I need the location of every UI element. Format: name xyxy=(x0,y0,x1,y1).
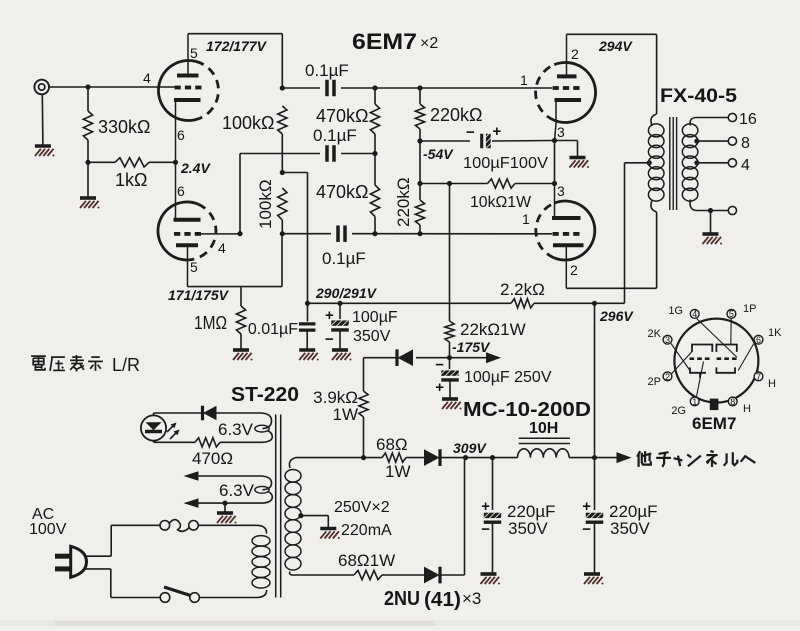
capacitor C2 0.1uF to inverter grid xyxy=(325,145,329,162)
svg-text:350V: 350V xyxy=(508,519,548,538)
node cathode/10k junction xyxy=(552,181,557,186)
node 8ohm tap xyxy=(694,139,699,144)
svg-text:1W: 1W xyxy=(333,405,359,424)
label voltage-note (Japanese) Denatsu hyouji L/R xyxy=(31,355,46,357)
svg-text:350V: 350V xyxy=(610,519,650,538)
svg-text:250V×2: 250V×2 xyxy=(334,499,390,516)
node 296V junction xyxy=(592,301,597,306)
svg-text:10H: 10H xyxy=(529,420,558,437)
capacitor C5 0.01uF decoupling xyxy=(307,303,309,321)
ground (jack shell) xyxy=(35,144,51,148)
wire 22k riser xyxy=(449,184,451,322)
wire secondary 0 tap xyxy=(697,210,728,212)
svg-text:−: − xyxy=(582,521,591,538)
wire V1b plate to OPT xyxy=(567,33,657,35)
wire to other channel arrow xyxy=(595,457,619,459)
svg-text:8: 8 xyxy=(741,135,750,152)
svg-text:+: + xyxy=(493,123,502,140)
resistor R2 1kOhm V1a cathode xyxy=(88,161,115,163)
svg-text:−: − xyxy=(481,521,490,538)
svg-text:294V: 294V xyxy=(598,38,633,54)
capacitor C1 0.1uF xyxy=(325,80,329,97)
svg-text:309V: 309V xyxy=(453,440,487,456)
svg-text:−: − xyxy=(466,124,475,141)
fuse F1 xyxy=(160,521,170,531)
svg-text:×2: ×2 xyxy=(420,35,438,52)
resistor R9 220kOhm V2b grid leak xyxy=(419,184,421,201)
ground (HV center tap) xyxy=(320,527,336,531)
wire V2a grid to divider xyxy=(239,154,241,234)
socket pin 5 xyxy=(727,310,736,319)
svg-text:2G: 2G xyxy=(671,405,686,417)
resistor R11 2.2kOhm dropper xyxy=(511,299,534,308)
transformer T1 primary winding xyxy=(199,525,267,533)
terminal 8 xyxy=(728,137,736,145)
svg-text:3: 3 xyxy=(557,124,565,140)
wire jack to V1a grid xyxy=(48,86,174,88)
svg-text:8: 8 xyxy=(730,397,735,407)
node B+ feed junction xyxy=(280,170,285,175)
wire secondary 16ohm tap xyxy=(697,117,728,119)
node rail/0.01uF xyxy=(305,301,310,306)
svg-text:H: H xyxy=(768,378,776,390)
node bias divider junction xyxy=(417,181,422,186)
pilot lamp LED xyxy=(141,415,166,440)
svg-text:16: 16 xyxy=(739,111,757,128)
node cathode-return junction xyxy=(85,160,90,165)
node row3/220k xyxy=(417,231,422,236)
ground (bias filter) xyxy=(442,397,458,401)
resistor R1 330kOhm xyxy=(87,87,89,111)
svg-text:2: 2 xyxy=(570,262,578,278)
node secondary ground tap xyxy=(708,208,713,213)
svg-text:470kΩ: 470kΩ xyxy=(316,106,369,126)
wire plug to switch xyxy=(85,568,111,570)
input jack J1 xyxy=(34,80,49,95)
node V1a plate junction xyxy=(280,85,285,90)
resistor R7 470kOhm divider lower xyxy=(374,154,376,186)
svg-text:6.3V: 6.3V xyxy=(219,481,255,500)
svg-text:7: 7 xyxy=(756,372,761,382)
svg-text:+: + xyxy=(481,498,490,515)
transformer T2 primary winding xyxy=(651,114,657,126)
svg-text:6: 6 xyxy=(756,335,761,345)
svg-text:ST-220: ST-220 xyxy=(231,384,299,406)
svg-text:MC-10-200D: MC-10-200D xyxy=(463,399,591,421)
svg-text:470kΩ: 470kΩ xyxy=(316,182,369,202)
resistor R15 68Ohm1W upper xyxy=(364,457,383,459)
svg-text:100kΩ: 100kΩ xyxy=(222,113,275,133)
svg-text:-175V: -175V xyxy=(452,339,491,355)
resistor R6 470kOhm divider upper xyxy=(374,88,376,104)
resistor R5 1MOhm V2a grid leak xyxy=(240,287,242,306)
wire B+ to OPT center tap xyxy=(624,163,626,303)
node -175V junction xyxy=(447,355,452,360)
power switch S1 xyxy=(160,593,170,603)
node 4ohm tap xyxy=(694,160,699,165)
svg-text:1: 1 xyxy=(522,211,530,227)
svg-text:3: 3 xyxy=(665,335,670,345)
svg-text:68Ω: 68Ω xyxy=(376,435,408,454)
node primary center tap xyxy=(647,160,652,165)
resistor R3 100kOhm V1a plate load xyxy=(278,106,287,134)
svg-text:H: H xyxy=(743,403,751,415)
resistor R4 100kOhm V2a plate load xyxy=(278,188,287,220)
node 22k/10k junction xyxy=(447,181,452,186)
diode D2 rectifier lower xyxy=(382,574,425,576)
node HV center tap xyxy=(298,513,303,518)
wire V1a plate to coupling node xyxy=(188,33,282,35)
ground (input return) xyxy=(87,162,89,196)
diode D4 bias rectifier xyxy=(416,357,450,359)
svg-text:5: 5 xyxy=(190,259,198,275)
socket pin 3 xyxy=(663,335,672,344)
svg-text:100µF: 100µF xyxy=(352,309,398,326)
svg-text:100µF100V: 100µF100V xyxy=(463,155,548,172)
transformer T1 core xyxy=(275,415,277,598)
node 296V feed/second cap xyxy=(592,455,597,460)
wire B+ branch xyxy=(282,172,307,174)
svg-text:1: 1 xyxy=(520,72,528,88)
diode D5 pilot rectifier xyxy=(203,406,217,421)
svg-text:FX-40-5: FX-40-5 xyxy=(660,86,737,107)
node rail/100uF xyxy=(337,301,342,306)
svg-text:2.2kΩ: 2.2kΩ xyxy=(500,280,545,299)
socket pin 6 xyxy=(754,335,763,344)
svg-text:470Ω: 470Ω xyxy=(192,449,233,468)
ground (speaker common) xyxy=(703,232,719,236)
wire lower rectifier to 309V xyxy=(464,458,466,575)
node divider tap xyxy=(372,151,377,156)
node input junction xyxy=(85,84,90,89)
triode V2a (6EM7 section1, phase inverter) xyxy=(194,204,216,259)
socket diagram 6EM7 basing xyxy=(674,319,758,403)
terminal 0 xyxy=(728,206,736,214)
resistor R13 3.9kOhm1W xyxy=(363,358,365,391)
triode V1a (6EM7 section1, first channel) xyxy=(196,61,219,118)
svg-text:3: 3 xyxy=(557,183,565,199)
ground (first filter) xyxy=(481,572,497,576)
resistor R8 220kOhm V1b grid leak xyxy=(419,88,421,104)
transformer core xyxy=(669,117,671,210)
svg-text:4: 4 xyxy=(143,70,151,86)
svg-text:4: 4 xyxy=(692,309,697,319)
wire 290V rail xyxy=(308,302,512,304)
socket pin 1 xyxy=(690,397,699,406)
svg-text:6EM7: 6EM7 xyxy=(352,29,417,54)
svg-text:6: 6 xyxy=(177,127,185,143)
terminal 16 xyxy=(728,113,736,121)
capacitor C7 100uF250V bias filter xyxy=(449,358,451,369)
ground (0.01uF) xyxy=(299,348,315,352)
svg-text:0.01µF: 0.01µF xyxy=(248,321,298,338)
svg-text:1G: 1G xyxy=(668,305,683,317)
node V2a plate/coupling junction xyxy=(280,231,285,236)
svg-text:0.1µF: 0.1µF xyxy=(305,61,349,80)
svg-text:L/R: L/R xyxy=(112,355,140,375)
svg-text:100kΩ: 100kΩ xyxy=(256,179,275,229)
resistor R10 10kOhm1W xyxy=(450,183,488,185)
transformer T1 HV secondary 250Vx2 xyxy=(289,458,300,468)
svg-text:+: + xyxy=(582,498,591,515)
svg-text:1MΩ: 1MΩ xyxy=(194,313,227,333)
svg-text:0.1µF: 0.1µF xyxy=(313,126,357,145)
svg-text:68Ω1W: 68Ω1W xyxy=(338,551,395,570)
resistor R14 470Ohm pilot dropper xyxy=(154,441,196,443)
svg-text:220kΩ: 220kΩ xyxy=(430,105,483,125)
svg-text:220mA: 220mA xyxy=(341,522,392,539)
bias feed arrow to other channel xyxy=(450,357,490,359)
ground (output cathodes) xyxy=(555,140,578,142)
svg-text:2NU: 2NU xyxy=(384,588,420,610)
triode V1b (6EM7 power section) xyxy=(536,65,555,121)
wire row3 V2b grid xyxy=(282,233,331,235)
svg-text:2K: 2K xyxy=(648,328,662,340)
node row3/470k xyxy=(372,231,377,236)
svg-text:350V: 350V xyxy=(353,328,391,345)
svg-text:1kΩ: 1kΩ xyxy=(115,170,147,190)
transformer T2 secondary winding xyxy=(690,118,697,126)
resistor R16 68Ohm1W lower xyxy=(354,570,382,579)
ground (second filter) xyxy=(584,572,600,576)
svg-text:1K: 1K xyxy=(768,327,782,339)
wire 296V to PSU xyxy=(594,303,596,457)
svg-text:296V: 296V xyxy=(599,308,634,324)
socket pin 8 xyxy=(728,397,737,406)
svg-text:+: + xyxy=(435,379,444,396)
svg-text:2.4V: 2.4V xyxy=(180,160,211,176)
svg-text:0.1µF: 0.1µF xyxy=(322,249,366,268)
wire V2b plate to OPT xyxy=(566,287,656,289)
svg-text:10kΩ1W: 10kΩ1W xyxy=(470,194,532,211)
svg-text:2: 2 xyxy=(571,46,579,62)
heater feed arrows xyxy=(184,471,199,481)
socket internal elements xyxy=(692,345,712,352)
capacitor C8 220uF350V first filter xyxy=(492,458,494,510)
node row1/470k xyxy=(372,85,377,90)
node cathode/ground junction xyxy=(552,138,557,143)
node rectifier input top xyxy=(361,455,366,460)
svg-text:2: 2 xyxy=(665,372,670,382)
transformer T1 6.3V winding B heater xyxy=(197,476,272,490)
svg-text:22kΩ1W: 22kΩ1W xyxy=(460,320,526,339)
svg-text:290/291V: 290/291V xyxy=(315,285,378,301)
svg-text:−: − xyxy=(325,331,334,348)
svg-text:5: 5 xyxy=(190,45,198,61)
node heater ground tap xyxy=(222,501,227,506)
pilot light arrows xyxy=(167,424,175,432)
wire plug to fuse xyxy=(85,555,111,557)
ground (1M return) xyxy=(233,348,249,352)
svg-text:4: 4 xyxy=(218,240,226,256)
socket pin 2 xyxy=(663,372,672,381)
node row1/220k xyxy=(417,85,422,90)
svg-text:5: 5 xyxy=(729,309,734,319)
socket pin 4 xyxy=(690,310,699,319)
svg-text:2P: 2P xyxy=(648,376,661,388)
socket pin 7 xyxy=(754,372,763,381)
svg-text:100µF 250V: 100µF 250V xyxy=(464,369,552,386)
svg-text:1: 1 xyxy=(692,397,697,407)
svg-text:171/175V: 171/175V xyxy=(168,287,230,303)
wire V2a plate to 100k load xyxy=(188,286,283,288)
svg-text:6: 6 xyxy=(177,183,185,199)
svg-text:172/177V: 172/177V xyxy=(206,38,268,54)
svg-text:-54V: -54V xyxy=(423,146,454,162)
svg-text:6EM7: 6EM7 xyxy=(692,414,736,433)
node 309V xyxy=(463,455,468,460)
svg-text:4: 4 xyxy=(741,157,750,174)
svg-text:6.3V: 6.3V xyxy=(218,420,254,439)
svg-text:(41): (41) xyxy=(424,589,461,611)
node first filter cap xyxy=(490,455,495,460)
svg-text:1P: 1P xyxy=(743,303,756,315)
wire -54V down xyxy=(419,141,421,184)
diode D1 rectifier upper xyxy=(406,457,425,459)
svg-text:1W: 1W xyxy=(385,462,411,481)
capacitor C3 0.1uF xyxy=(336,225,340,242)
wire cathode bus xyxy=(554,141,556,184)
svg-text:330kΩ: 330kΩ xyxy=(98,117,151,137)
node -54V xyxy=(417,138,422,143)
transformer T1 6.3V winding A xyxy=(154,413,272,429)
resistor R12 22kOhm1W xyxy=(445,321,454,342)
wire bias row xyxy=(420,183,450,185)
label to-other-channel (Japanese) xyxy=(637,451,640,457)
ground (heater winding) xyxy=(217,511,233,515)
ground (100uF) xyxy=(332,348,348,352)
svg-text:×3: ×3 xyxy=(462,589,481,608)
capacitor C9 220uF350V second filter xyxy=(594,458,596,510)
triode V2b (6EM7 power section) xyxy=(536,203,555,258)
wire row1 to output grid xyxy=(282,87,320,89)
socket key xyxy=(710,399,719,411)
terminal 4 xyxy=(728,159,736,167)
capacitor C4 100uF100V bias filter xyxy=(420,140,470,142)
svg-text:100V: 100V xyxy=(29,521,67,538)
svg-text:220kΩ: 220kΩ xyxy=(394,177,413,227)
AC plug xyxy=(71,546,87,577)
